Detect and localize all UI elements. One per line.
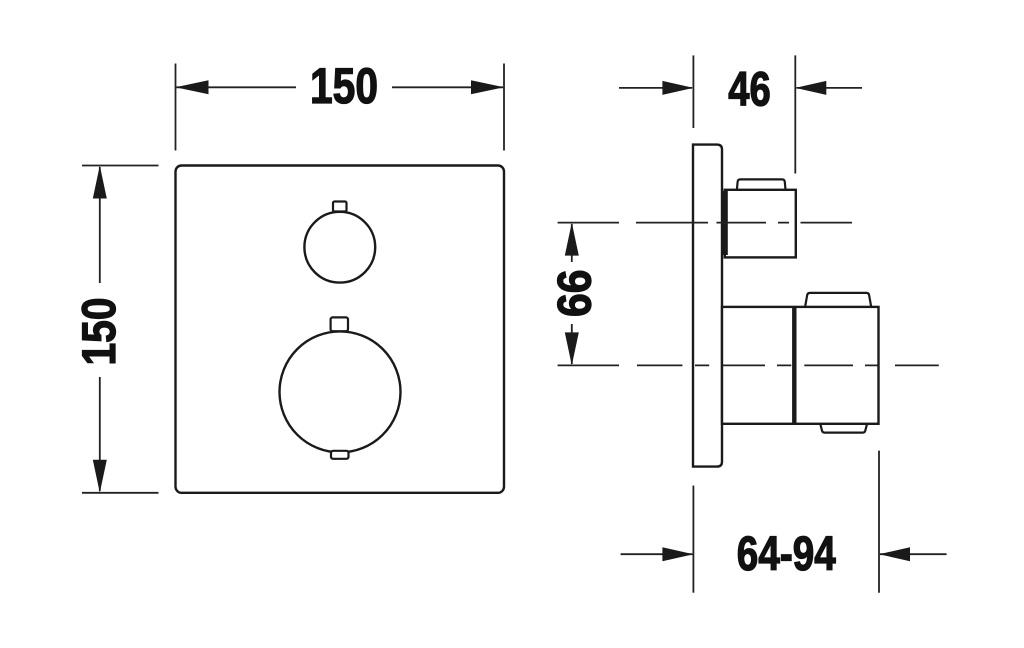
svg-text:150: 150 <box>72 298 125 366</box>
svg-text:64-94: 64-94 <box>737 528 836 581</box>
svg-text:150: 150 <box>310 58 378 114</box>
svg-text:66: 66 <box>549 270 602 318</box>
svg-text:46: 46 <box>728 63 771 116</box>
